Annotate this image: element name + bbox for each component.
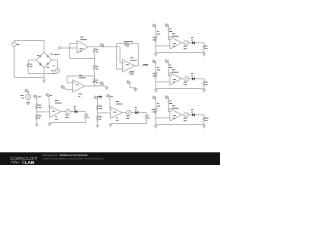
resistor R7 xyxy=(203,45,205,51)
wire OA1 feedback left xyxy=(70,43,77,58)
resistor R5 feedback xyxy=(124,42,131,44)
resistor D8R xyxy=(145,115,147,121)
label OA4+ net xyxy=(169,29,172,32)
wire AM3 to D6 xyxy=(189,78,192,80)
label R2 xyxy=(96,49,98,53)
ground OA2 out xyxy=(105,86,109,89)
wire bridge bottom down xyxy=(43,68,45,80)
ground rail OA4 xyxy=(202,53,206,56)
wire tap OA7 xyxy=(98,112,111,114)
flag net c xyxy=(129,72,134,75)
wire tap to OA2 xyxy=(67,76,94,83)
label OA7 xyxy=(116,101,123,104)
diode D6 xyxy=(192,77,195,80)
ground rail OA8 xyxy=(48,123,52,126)
svg-text:nttp://circuitlab.com/c/59mn6v: nttp://circuitlab.com/c/59mn6v5c63az xyxy=(43,156,105,160)
resistor R10 xyxy=(155,108,157,114)
junction fb xyxy=(94,58,95,59)
junction A xyxy=(69,47,70,48)
wire OA4 inverting input xyxy=(156,45,170,47)
junction OA3 out xyxy=(138,65,139,66)
junction OA1 out xyxy=(94,46,95,47)
flag net V4 xyxy=(153,96,156,125)
label D8R xyxy=(148,115,150,118)
flag net OA5+ xyxy=(165,60,170,76)
flag net OA7in xyxy=(94,96,97,124)
resistor R9 xyxy=(203,81,205,87)
watermark bar xyxy=(0,152,220,165)
op-amp OA5 xyxy=(170,72,182,85)
label OA6 value xyxy=(173,115,176,118)
ammeter AM4 xyxy=(184,112,189,117)
CircuitLab logo xyxy=(10,156,38,165)
wire V1 top to bridge xyxy=(14,40,44,52)
label R15 xyxy=(38,115,41,118)
terminal TP1 xyxy=(43,79,46,82)
watermark url xyxy=(43,156,105,160)
label D1 xyxy=(37,55,39,56)
label net dark xyxy=(98,96,103,97)
label OA6 xyxy=(172,105,179,108)
flag net OA4+ xyxy=(165,24,170,40)
ground below VM1 xyxy=(27,99,30,104)
voltage source V1 xyxy=(12,42,17,47)
wire rail OA7 xyxy=(110,120,146,123)
watermark title xyxy=(43,153,88,157)
wire OA2 output xyxy=(85,85,107,87)
label OA3 value xyxy=(126,63,129,66)
wire tap OA8 xyxy=(37,111,50,113)
ground rail OA5 xyxy=(202,89,206,92)
label AM6 xyxy=(65,115,68,118)
op-amp OA2 xyxy=(73,80,85,92)
label VM1 xyxy=(20,95,23,98)
junction OA2 out xyxy=(94,85,95,86)
op-amp OA7 xyxy=(110,107,122,118)
op-amp OA4 xyxy=(170,36,182,49)
wire OA5 output xyxy=(182,78,184,80)
wire OA3 feedback up xyxy=(130,44,138,66)
label AM1 xyxy=(51,70,54,73)
ground V4 xyxy=(154,125,158,128)
wire D9 out xyxy=(78,112,86,114)
resistor D9R xyxy=(85,114,87,120)
label OA5 xyxy=(172,69,179,72)
wire bridge right to ammeter xyxy=(52,60,58,69)
wire AM5 to D8 xyxy=(131,112,135,114)
wire bridge left to R1 xyxy=(28,60,36,63)
label R5 xyxy=(124,41,133,42)
ammeter AM5 xyxy=(127,110,132,115)
label OA5 value xyxy=(173,79,176,82)
label AM4 xyxy=(184,118,187,121)
label OA2 value xyxy=(76,83,79,86)
label V4 xyxy=(157,103,160,106)
wire D7 to R11 xyxy=(195,115,204,117)
flag net OA7+ xyxy=(107,94,111,109)
resistor R6 xyxy=(155,36,157,42)
label OA3 xyxy=(130,57,137,60)
label OA7+ net xyxy=(111,95,113,98)
label AM3 xyxy=(184,82,187,85)
wire R3 to R4 xyxy=(93,70,95,78)
label V2 xyxy=(157,31,160,34)
resistor R4 xyxy=(93,78,95,84)
wire R1 to rail xyxy=(28,68,55,74)
wire rail OA8 xyxy=(50,119,86,122)
wire OA1 feedback bottom xyxy=(70,57,95,59)
flag net OA8+ xyxy=(46,93,50,108)
label R3 xyxy=(96,66,98,70)
diode D3 xyxy=(39,62,42,65)
label D7 xyxy=(191,109,193,112)
label net OA8in xyxy=(38,95,41,98)
label D8 xyxy=(135,107,137,110)
label R9 xyxy=(205,82,207,85)
resistor R15 xyxy=(36,114,38,120)
resistor R8 xyxy=(155,72,157,78)
flag net OA8in xyxy=(34,95,37,123)
label OA2 below xyxy=(78,93,82,96)
label D9 xyxy=(74,106,76,109)
resistor R2 xyxy=(93,48,95,53)
label rail a xyxy=(92,80,95,83)
wire R7 to rail xyxy=(203,50,205,52)
wire AM4 to D7 xyxy=(189,114,192,116)
label OA7 below xyxy=(116,117,119,120)
wire TP2 to OA1 inverting input xyxy=(60,47,77,49)
label OA4 xyxy=(172,33,179,36)
flag net a xyxy=(100,43,103,46)
wire OA6 output xyxy=(182,114,184,116)
wire OA7 output xyxy=(122,112,126,114)
wire R9 to rail xyxy=(203,86,205,88)
diode D5 xyxy=(192,41,195,44)
junction tap OA8 xyxy=(36,111,37,112)
op-amp OA1 xyxy=(77,41,88,54)
label OA1 xyxy=(80,37,87,40)
label OA8 below xyxy=(55,116,58,119)
label OA2 xyxy=(79,75,86,78)
label OA3 below xyxy=(130,71,134,74)
label OA8+ net xyxy=(50,94,52,97)
wire R4 to H output xyxy=(93,84,95,86)
label D5 xyxy=(191,37,193,40)
label R1 xyxy=(30,64,32,68)
label OA5+ net xyxy=(169,65,172,68)
wire D6 to R9 xyxy=(195,79,204,81)
ammeter AM2 xyxy=(184,40,189,45)
bottom rail OA4 xyxy=(156,52,204,54)
bridge diamond wires xyxy=(36,52,51,67)
flag net VM xyxy=(25,89,28,94)
diode D9 xyxy=(74,110,77,113)
flag net OA6+ xyxy=(165,96,170,112)
label R6 xyxy=(153,37,155,40)
op-amp OA8 xyxy=(50,106,62,117)
op-amp OA3 xyxy=(123,60,135,73)
label R7 xyxy=(205,46,207,49)
junction tap xyxy=(94,75,95,76)
label OA8 xyxy=(55,100,62,103)
flag net d xyxy=(127,81,136,88)
terminal TP2 xyxy=(58,46,62,50)
wire OA4 output xyxy=(182,42,184,44)
flag net V3 xyxy=(153,60,156,89)
label AM5 xyxy=(126,116,129,119)
label AM2 xyxy=(184,46,187,49)
diode D7 xyxy=(192,113,195,116)
label D9R xyxy=(87,114,89,117)
diode D2 xyxy=(46,55,49,58)
flag net b xyxy=(125,43,128,46)
wire OA3 output xyxy=(134,65,138,67)
ammeter AM6 xyxy=(66,109,71,114)
ammeter AM3 xyxy=(184,76,189,81)
label R13 xyxy=(99,116,102,119)
wire AM2 to D5 xyxy=(189,42,192,44)
wire AM6 to D9 xyxy=(70,111,74,113)
resistor R1 xyxy=(27,63,29,68)
diode D8 xyxy=(135,111,138,114)
label V1 xyxy=(17,44,19,45)
label D6 xyxy=(191,73,193,76)
wire D5 to R7 xyxy=(195,43,204,45)
svg-text:LAB: LAB xyxy=(25,160,35,165)
label V3 xyxy=(157,67,160,70)
label R10 xyxy=(152,109,155,112)
junction tap OA7 xyxy=(97,112,98,113)
ground chain OA7 xyxy=(96,124,100,127)
ground V2 xyxy=(154,53,158,56)
ground rail OA7 xyxy=(109,124,113,127)
label R4 xyxy=(96,80,98,84)
ground rail OA6 xyxy=(202,125,206,128)
flag net rail xyxy=(100,82,103,86)
voltmeter VM1 xyxy=(26,94,31,99)
label R8 xyxy=(153,73,155,76)
ground block B xyxy=(134,88,137,91)
label R12 xyxy=(99,106,102,109)
label net OA7in xyxy=(99,96,102,99)
ground chain OA8 xyxy=(35,123,39,126)
resistor R3 xyxy=(93,65,95,70)
resistor R13 xyxy=(96,115,98,121)
wire OA8 output xyxy=(61,111,65,113)
label R11 xyxy=(205,118,208,121)
bottom rail OA5 xyxy=(156,88,204,90)
diode D4 xyxy=(46,62,49,65)
label D3 xyxy=(40,64,42,65)
label R14 xyxy=(38,105,41,108)
wire OA3 feedback left xyxy=(117,44,124,70)
wire OA1 output xyxy=(88,46,120,48)
diode D1 xyxy=(39,55,42,58)
wire R11 to rail xyxy=(203,122,205,124)
wire R2 to R3 xyxy=(93,53,95,65)
wire OA6 inverting input xyxy=(156,117,170,119)
junction bridge bottom xyxy=(43,77,44,78)
wire OA1 out to OA3 noninv xyxy=(120,47,123,63)
op-amp OA6 xyxy=(170,108,182,121)
label OA4 value xyxy=(173,43,176,46)
resistor R12 xyxy=(96,105,98,111)
resistor R14 xyxy=(36,104,38,110)
ground V3 xyxy=(154,89,158,92)
wire flag to OA2 input xyxy=(66,88,73,90)
label OA6+ net xyxy=(169,101,172,104)
wire V1 bottom xyxy=(14,47,44,78)
label OA1 value xyxy=(80,48,83,51)
wire ammeter bottom xyxy=(55,72,57,74)
bottom rail OA6 xyxy=(156,124,204,126)
label OA7 value xyxy=(113,111,116,114)
flag net h xyxy=(61,85,66,89)
wire OA5 inverting input xyxy=(156,81,170,83)
resistor R11 xyxy=(203,117,205,123)
ammeter AM1 xyxy=(55,69,59,73)
label OA8 value xyxy=(52,110,55,113)
label D4 xyxy=(47,65,55,68)
label net out dark xyxy=(141,64,148,66)
wire D8 out xyxy=(138,113,146,115)
flag net V2 xyxy=(153,24,156,53)
label D2 xyxy=(50,53,59,54)
